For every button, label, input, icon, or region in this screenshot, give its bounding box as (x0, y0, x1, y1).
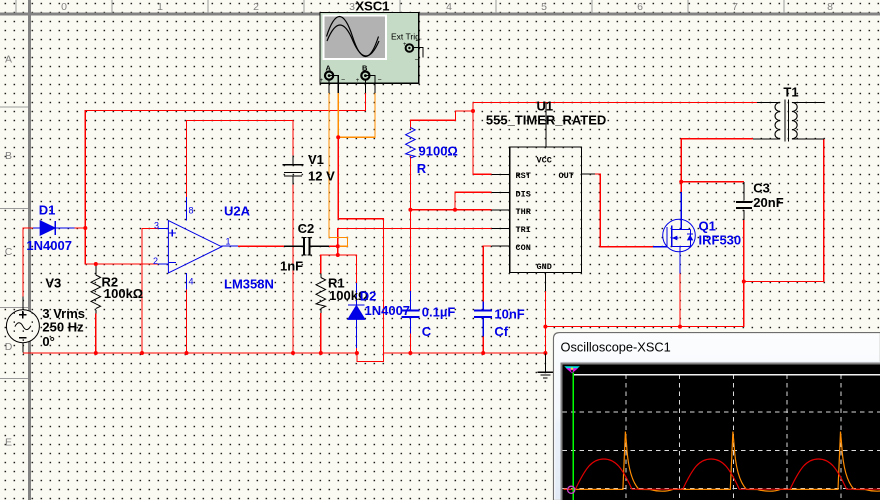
svg-text:CON: CON (516, 243, 531, 253)
svg-text:D2: D2 (360, 289, 377, 304)
junction: scope A-/B- (336, 135, 340, 139)
junction: R1/rail (319, 351, 323, 355)
wire: V1 minus down to rail (292, 185, 294, 353)
wire: 555 GND stub down (544, 273, 546, 291)
wire: RST vertical and VCC top rail to T1 (473, 102, 757, 174)
wire: T1 lead stubs (753, 102, 824, 138)
svg-text:A: A (5, 54, 12, 66)
junction: R2/rail (94, 351, 98, 355)
wire: lower ground run (545, 282, 743, 327)
junction: D2/rail jog (355, 351, 359, 355)
svg-text:1: 1 (226, 237, 231, 247)
wire: 555 left pin stubs (491, 174, 509, 246)
resistor R1 (316, 278, 326, 309)
wire: 555 OUT stub (581, 173, 595, 175)
svg-text:C: C (422, 324, 432, 339)
transformer T1 (775, 100, 797, 142)
junction: DIS tap (453, 208, 457, 212)
svg-text:C2: C2 (298, 221, 315, 236)
junction: node B (C3/T1 sec) (742, 280, 746, 284)
svg-text:0°: 0° (42, 334, 54, 349)
resistor R2 (91, 275, 101, 309)
wire: OUT pin to Q1 gate (595, 174, 653, 247)
wire: C3 lead stubs (743, 182, 745, 220)
svg-text:R: R (417, 161, 427, 176)
wire: R2 lead stubs (95, 264, 97, 314)
wire: drain node to C3 top (681, 181, 744, 183)
wire: Q1 source to lower ground run (679, 273, 681, 326)
wire: op-amp output to C2 left (238, 245, 284, 247)
oscilloscope window frame (554, 333, 880, 500)
junction: node A lower (R1/D2) (336, 253, 340, 257)
op-amp U2A (158, 197, 238, 290)
svg-text:1nF: 1nF (280, 259, 303, 274)
wire: C2 lead stubs (284, 245, 329, 247)
junction: pin3/rail (140, 351, 144, 355)
svg-text:8: 8 (827, 1, 833, 13)
svg-text:0: 0 (61, 1, 67, 13)
svg-text:3: 3 (349, 1, 355, 13)
svg-text:E: E (5, 437, 12, 449)
wire: TRI pin net to node A (338, 228, 492, 255)
wire: op-amp pin8 to V1 plus (187, 120, 294, 197)
wire: node B to T1 secondary bottom (744, 139, 824, 282)
ruler letters (5, 54, 13, 449)
junction: Cf/rail (481, 351, 485, 355)
capacitor C 0.1uF (blue) (401, 291, 419, 334)
svg-text:Cf: Cf (494, 324, 508, 339)
wire: node A to R1 top (321, 255, 338, 274)
wire: R top bend to RST junction (410, 111, 473, 129)
junction: THR node (408, 208, 412, 212)
wire: op-amp pin3 to ground rail (142, 229, 158, 354)
graticule (563, 375, 880, 500)
svg-text:555_TIMER_RATED: 555_TIMER_RATED (486, 113, 606, 128)
svg-text:20nF: 20nF (753, 195, 783, 210)
wire: 555 GND pin to ground symbol (544, 291, 546, 354)
svg-text:+: + (356, 78, 360, 84)
svg-text:V3: V3 (45, 276, 61, 291)
wire: op-amp pin4 to rail (186, 290, 188, 354)
wire: scope B+ sense net (to D1 cathode / op-amp minus node) (75, 92, 366, 264)
svg-text:250 Hz: 250 Hz (42, 320, 84, 335)
wire: DIS pin branch (455, 192, 491, 210)
capacitor Cf 10nF (blue) (474, 301, 492, 336)
svg-text:GND: GND (537, 262, 552, 272)
ruler tick marks top (16, 0, 784, 13)
trigger marker triangle (564, 366, 580, 373)
svg-text:2: 2 (153, 256, 158, 266)
svg-text:OUT: OUT (559, 171, 574, 181)
scope screen (562, 362, 880, 500)
svg-text:DIS: DIS (516, 189, 531, 199)
junction: drain/C3 node (679, 180, 683, 184)
svg-text:Q1: Q1 (699, 219, 716, 234)
AC source V3 (6, 297, 39, 353)
svg-text:9100Ω: 9100Ω (419, 144, 458, 159)
wire: R1 lead stubs (320, 274, 322, 314)
wire: V3 plus to D1 anode (23, 228, 33, 297)
svg-text:0.1µF: 0.1µF (422, 305, 456, 320)
channel A trace (red half-sine) (564, 459, 880, 489)
graticule top line (573, 374, 880, 376)
IC U1 555 timer box (510, 147, 582, 273)
junction: C/rail (408, 351, 412, 355)
wire: C2 right to node A (329, 245, 338, 247)
wire: R2 bottom to rail (95, 314, 97, 354)
wire: 555 VCC stub up (545, 102, 547, 146)
sheet border: left vertical bar (28, 0, 31, 500)
svg-text:1: 1 (157, 1, 163, 13)
svg-text:Oscilloscope-XSC1: Oscilloscope-XSC1 (561, 340, 671, 355)
junction: node A upper (C2/TRI/A+) (336, 244, 340, 248)
wire: R column vertical (THR to C top) (409, 156, 411, 291)
svg-text:5: 5 (541, 1, 547, 13)
wire: R1 bottom to rail (320, 313, 322, 353)
wire: THR node horizontal (410, 209, 491, 211)
svg-text:100kΩ: 100kΩ (104, 286, 143, 301)
capacitor C3 (736, 202, 752, 208)
diode D1 (33, 221, 75, 235)
resistor R 9100 (blue) (406, 128, 416, 159)
green cursor line (572, 373, 574, 500)
svg-text:2: 2 (253, 1, 259, 13)
svg-text:U1: U1 (537, 99, 554, 114)
wire: D2 anode to rail (355, 348, 357, 353)
svg-text:D1: D1 (39, 203, 56, 218)
svg-text:3: 3 (154, 221, 159, 231)
diode D2 (348, 283, 364, 348)
cursor circle marker (568, 486, 575, 493)
svg-text:B: B (5, 150, 12, 162)
svg-text:U2A: U2A (224, 204, 251, 219)
svg-text:7: 7 (732, 1, 738, 13)
svg-text:1N4007: 1N4007 (365, 303, 411, 318)
svg-text:VCC: VCC (537, 155, 552, 165)
oscilloscope XSC1 symbol (320, 13, 424, 93)
svg-text:TRI: TRI (516, 225, 531, 235)
ruler tick marks left (0, 107, 28, 379)
battery V1 (283, 155, 304, 184)
svg-text:4: 4 (446, 1, 452, 13)
svg-text:12 V: 12 V (308, 169, 335, 184)
channel B trace (orange) baseline with spikes (564, 432, 880, 492)
wire: scope B+ drop (364, 92, 366, 110)
svg-text:THR: THR (516, 207, 532, 217)
junction: D1 cathode node (83, 226, 87, 230)
junction: Q1 source/ground run (678, 325, 682, 329)
wire: C3 bottom to node B (743, 220, 745, 282)
svg-text:LM358N: LM358N (224, 277, 274, 292)
svg-text:10nF: 10nF (494, 307, 524, 322)
sheet border: top ruler bar (0, 12, 880, 15)
svg-text:C: C (5, 246, 13, 258)
svg-text:1N4007: 1N4007 (26, 238, 72, 253)
wire: T1 primary bottom to Q1 drain (681, 139, 753, 192)
svg-text:−: − (415, 57, 419, 64)
svg-text:−: − (341, 77, 345, 84)
svg-text:T1: T1 (783, 85, 798, 100)
ground symbol (538, 354, 554, 378)
wire: bottom ground rail with jog (23, 353, 546, 362)
svg-text:8: 8 (189, 206, 194, 216)
MOSFET Q1 IRF530 (653, 192, 695, 273)
svg-text:IRF530: IRF530 (699, 233, 742, 248)
wire: scope A+ channel (orange) (329, 92, 347, 246)
wire: C bottom to rail (409, 334, 411, 353)
wire: CON pin to Cf top (483, 246, 491, 301)
svg-text:6: 6 (637, 1, 643, 13)
junction: R2 top (94, 262, 98, 266)
junction: GND/rail (543, 351, 547, 355)
svg-text:−: − (378, 77, 382, 84)
junction: ground run/GND pin (543, 325, 547, 329)
svg-text:+: + (320, 78, 324, 84)
svg-text:V1: V1 (308, 152, 324, 167)
svg-text:D: D (5, 341, 13, 353)
svg-text:RST: RST (516, 171, 531, 181)
junction: pin4/rail (185, 351, 189, 355)
wire: scope A- stub (orange) (337, 92, 339, 137)
svg-text:+: + (403, 42, 407, 48)
ruler numbers (61, 1, 833, 13)
svg-text:C3: C3 (753, 181, 770, 196)
wire: Cf bottom to rail (482, 336, 484, 353)
junction: RST/VCC net (471, 109, 475, 113)
svg-text:XSC1: XSC1 (356, 0, 390, 14)
junction: V1/rail (291, 351, 295, 355)
svg-text:Ext Trig.: Ext Trig. (391, 32, 422, 42)
capacitor C2 (302, 237, 313, 255)
wire: A-/B- ground return (338, 137, 383, 353)
wire: node A to D2 cathode (338, 255, 357, 283)
svg-text:4: 4 (189, 277, 194, 287)
wire: scope B- channel (orange) (338, 92, 375, 137)
